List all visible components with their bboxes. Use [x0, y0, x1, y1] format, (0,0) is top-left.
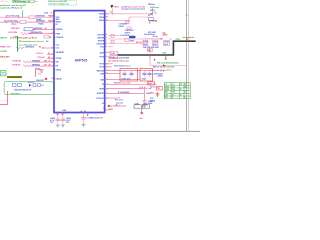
svg-text:B +C stift/C-bat conn: B +C stift/C-bat conn [108, 105, 126, 108]
svg-text:4: 4 [106, 51, 107, 54]
svg-text:25: 25 [48, 53, 50, 55]
svg-text:VCC-PL-CHG-LED and PL10: VCC-PL-CHG-LED and PL10 [10, 37, 38, 39]
svg-text:sys cap bank 4x22uF 0402: sys cap bank 4x22uF 0402 [108, 57, 129, 60]
svg-text:R9: R9 [148, 15, 150, 17]
svg-text:21: 21 [180, 89, 182, 91]
svg-text:VSYS: VSYS [99, 67, 105, 69]
svg-text:15: 15 [184, 92, 186, 94]
svg-text:BOOST: BOOST [98, 34, 105, 36]
svg-text:see page 4 usb pd ctrl doc4: see page 4 usb pd ctrl doc4 [121, 8, 145, 11]
svg-text:BATFET: BATFET [97, 92, 105, 95]
svg-text:LCD-PWM: LCD-PWM [8, 32, 18, 34]
svg-text:V1V8: V1V8 [44, 13, 48, 15]
svg-text:PWR-KEY: PWR-KEY [11, 28, 21, 30]
svg-text:VBUSDET: VBUSDET [56, 52, 65, 54]
svg-text:1uF: 1uF [149, 88, 152, 90]
svg-text:22uF: 22uF [143, 44, 147, 46]
svg-text:C22: C22 [66, 122, 69, 124]
svg-text:D1: D1 [42, 85, 44, 87]
svg-text:22uF: 22uF [164, 44, 168, 46]
svg-text:100: 100 [172, 94, 175, 96]
svg-text:prot ic: prot ic [167, 69, 172, 72]
svg-text:CC2: CC2 [56, 48, 60, 50]
svg-text:1500: 1500 [172, 89, 176, 91]
svg-text:BATSNS route kelvin: BATSNS route kelvin [114, 82, 131, 85]
svg-text:CHGLED: CHGLED [56, 37, 64, 39]
svg-text:PD auto-detect en by soc: PD auto-detect en by soc [19, 40, 45, 43]
svg-text:27: 27 [49, 61, 51, 63]
svg-text:6: 6 [106, 43, 107, 45]
svg-text:obtain-light-do: obtain-light-do [182, 36, 194, 39]
svg-text:+5V/PD: +5V/PD [0, 51, 8, 53]
svg-text:see spec of charger doc: see spec of charger doc [49, 3, 68, 5]
svg-text:CHGLED: CHGLED [96, 43, 104, 45]
svg-text:VCC-IO: VCC-IO [140, 87, 147, 89]
svg-text:PWRON: PWRON [56, 29, 64, 31]
svg-text:BSTSW: BSTSW [98, 37, 105, 39]
svg-text:VBUS: VBUS [99, 20, 105, 22]
svg-text:R-100K/R0402: R-100K/R0402 [118, 91, 129, 94]
svg-text:28: 28 [57, 114, 59, 116]
svg-text:BAT-8.7 2A 4.35V 30mR 2A: BAT-8.7 2A 4.35V 30mR 2A [153, 66, 175, 69]
svg-text:VBUS-in: VBUS-in [148, 4, 155, 6]
svg-text:D+5V-chg: D+5V-chg [150, 7, 160, 9]
svg-text:L-2.2uH/1A: L-2.2uH/1A [120, 34, 130, 37]
svg-text:31: 31 [52, 78, 54, 80]
svg-text:R0402: R0402 [39, 23, 44, 26]
svg-text:R5: R5 [39, 47, 41, 49]
svg-text:R41: R41 [48, 20, 51, 23]
svg-text:usb conn: usb conn [11, 93, 20, 95]
svg-text:3000: 3000 [172, 92, 176, 94]
svg-text:8205A: 8205A [158, 75, 164, 78]
svg-text:u2: u2 [110, 12, 112, 14]
svg-text:3: 3 [106, 56, 107, 58]
svg-text:18: 18 [184, 86, 186, 88]
svg-text:8: 8 [106, 34, 107, 36]
svg-text:CN2: CN2 [164, 34, 167, 36]
svg-text:VBUS: VBUS [114, 6, 120, 8]
svg-text:OTGID: OTGID [56, 58, 62, 60]
svg-text:5: 5 [106, 46, 107, 48]
svg-text:RTCLDO: RTCLDO [97, 98, 105, 100]
svg-text:F1: F1 [39, 74, 41, 76]
svg-text:VBUS: VBUS [99, 14, 105, 16]
svg-text:30: 30 [84, 111, 86, 113]
svg-text:24: 24 [48, 56, 50, 59]
svg-text:PC0-TWI0-SCK: PC0-TWI0-SCK [6, 16, 20, 18]
svg-text:OTG-EN: OTG-EN [37, 57, 45, 59]
svg-text:R0402: R0402 [150, 100, 155, 103]
svg-text:LED1: LED1 [150, 10, 155, 12]
svg-text:10K/R0402: 10K/R0402 [36, 15, 45, 18]
svg-text:BATSNS: BATSNS [97, 69, 105, 72]
svg-text:PC1-TWI0-SDA: PC1-TWI0-SDA [4, 20, 18, 23]
svg-text:dft: dft [46, 40, 49, 43]
svg-text:0R/R0402: 0R/R0402 [32, 64, 40, 67]
svg-text:2000: 2000 [172, 86, 176, 88]
svg-text:ver: ver [35, 1, 38, 3]
svg-text:VSYS: VSYS [99, 56, 105, 58]
svg-text:7: 7 [106, 40, 107, 42]
svg-text:USB-ID: USB-ID [56, 78, 63, 80]
svg-text:9: 9 [106, 37, 107, 39]
svg-text:VBUS: VBUS [165, 89, 169, 91]
svg-text:pin: pin [184, 84, 186, 86]
svg-text:470R 0402: 470R 0402 [149, 19, 157, 22]
svg-text:GND GND GND GND: GND GND GND GND [143, 47, 159, 49]
svg-text:VBUS: VBUS [39, 69, 45, 71]
svg-text:22uF: 22uF [153, 44, 157, 46]
svg-text:10K/R0402/5%: 10K/R0402/5% [30, 31, 43, 34]
svg-text:10: 10 [180, 94, 182, 96]
svg-text:USB-DM USB-DP 5V: USB-DM USB-DP 5V [14, 90, 32, 92]
svg-text:D2015: D2015 [119, 26, 124, 28]
svg-text:VUSB-DP: VUSB-DP [12, 65, 21, 67]
svg-text:29: 29 [62, 114, 64, 116]
svg-text:S1: S1 [45, 28, 47, 30]
svg-text:R12: R12 [151, 93, 154, 95]
svg-text:30: 30 [172, 97, 174, 99]
svg-text:DM: DM [44, 61, 47, 63]
svg-text:sda-pu: sda-pu [11, 24, 17, 26]
svg-text:VBUS: VBUS [99, 17, 105, 19]
svg-text:e-C1588/C-05-05 1uF: e-C1588/C-05-05 1uF [86, 118, 103, 120]
svg-text:SS34: SS34 [130, 39, 134, 42]
svg-text:bat+: bat+ [140, 117, 144, 120]
svg-text:VUSB-DM: VUSB-DM [12, 61, 21, 63]
svg-text:BST-5V: BST-5V [136, 42, 143, 44]
svg-text:R40: R40 [48, 15, 51, 18]
svg-text:10K/R0402: 10K/R0402 [25, 46, 34, 49]
svg-text:AXP515: AXP515 [75, 58, 88, 62]
svg-text:PWRIC: PWRIC [0, 46, 7, 48]
svg-text:OTG-ID: OTG-ID [36, 53, 43, 55]
svg-text:C21: C21 [50, 122, 53, 124]
svg-text:31: 31 [87, 114, 89, 116]
svg-text:RTC-VCC: RTC-VCC [115, 99, 124, 101]
svg-text:GND-PL: GND-PL [0, 37, 8, 39]
svg-text:BSTFB: BSTFB [98, 40, 105, 42]
svg-text:10K/R0402: 10K/R0402 [36, 20, 45, 23]
svg-text:NTC: NTC [7, 47, 12, 49]
svg-text:PMU/Charging_ckt: PMU/Charging_ckt [13, 0, 30, 3]
svg-text:GNDA: GNDA [56, 68, 62, 71]
svg-text:PWM: PWM [56, 33, 61, 35]
svg-text:is pinned at PL5 pin of: is pinned at PL5 pin of [0, 7, 22, 10]
svg-text:0R/R0402: 0R/R0402 [32, 60, 40, 63]
svg-text:PD-CC2: PD-CC2 [150, 86, 156, 88]
svg-text:26: 26 [49, 65, 51, 67]
svg-text:FUSE: FUSE [111, 53, 115, 55]
svg-text:22: 22 [106, 17, 108, 19]
svg-text:SW/100nF: SW/100nF [34, 28, 43, 30]
svg-text:VSYS 2x22uF near ic: VSYS 2x22uF near ic [114, 65, 131, 67]
svg-text:VSYS: VSYS [165, 86, 169, 88]
svg-text:CC1: CC1 [56, 44, 60, 46]
svg-text:TP1: TP1 [157, 88, 160, 90]
svg-text:VSYS: VSYS [99, 64, 105, 66]
svg-text:5V-out: 5V-out [153, 35, 159, 38]
svg-text:DM: DM [56, 62, 59, 64]
svg-text:EIA 3.2.25 600mA 2A 30m: EIA 3.2.25 600mA 2A 30m [157, 61, 179, 64]
svg-text:VBUS-DET: VBUS-DET [0, 57, 11, 59]
svg-text:u5: u5 [80, 111, 82, 113]
svg-text:FB2: FB2 [148, 50, 151, 52]
svg-text:J2: J2 [149, 23, 151, 25]
svg-text:ACIN: ACIN [100, 51, 105, 54]
svg-text:C31 C32 C33 C34 near pin: C31 C32 C33 C34 near pin [108, 59, 129, 62]
svg-text:PMU char: PMU char [1, 1, 9, 3]
